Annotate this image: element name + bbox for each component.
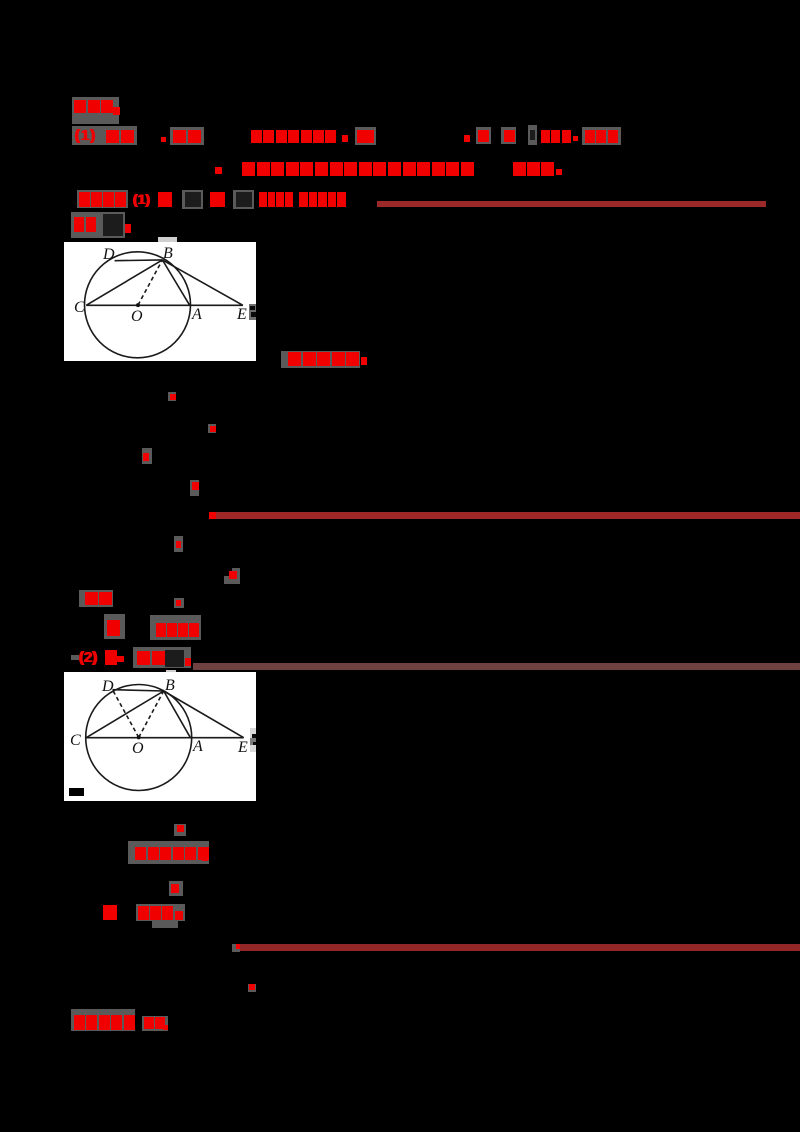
svg-text:E: E (236, 306, 247, 323)
svg-text:D: D (101, 678, 114, 695)
svg-text:A: A (192, 738, 203, 755)
svg-text:O: O (132, 740, 144, 757)
svg-text:C: C (74, 299, 85, 316)
svg-text:C: C (70, 732, 81, 749)
svg-text:B: B (165, 677, 175, 694)
svg-text:B: B (163, 245, 173, 262)
svg-text:O: O (131, 308, 143, 325)
svg-text:E: E (237, 739, 248, 756)
svg-text:A: A (191, 306, 202, 323)
svg-text:D: D (102, 246, 115, 263)
